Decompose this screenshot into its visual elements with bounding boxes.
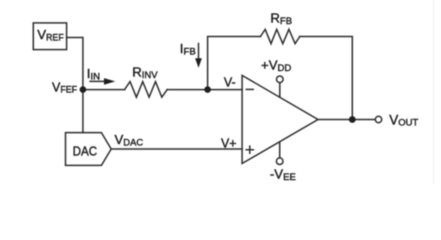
faint page border line (433, 0, 434, 184)
current arrow IIN line (90, 80, 106, 82)
current arrow IFB head (195, 58, 202, 68)
feedback wire: RFB down to output node (300, 37, 353, 120)
junction summing node V- (204, 86, 211, 93)
svg-text:V-: V- (224, 74, 236, 89)
op-amp inverting input minus sign (246, 88, 253, 90)
wire node VFEF to resistor RINV (83, 89, 125, 91)
current arrow IFB line (198, 44, 200, 60)
current arrow IIN head (104, 78, 115, 85)
negative supply pin stub -VEE (279, 142, 281, 158)
wire VREF output to node VFEF (67, 38, 83, 87)
wire DAC output VDAC to op-amp V+ input (111, 148, 242, 150)
voltage source box VREF (33, 23, 66, 50)
DAC block (66, 133, 112, 166)
svg-text:DAC: DAC (73, 143, 98, 158)
output terminal circle VOUT (375, 116, 381, 122)
resistor RFB (260, 29, 299, 43)
resistor RINV (125, 82, 168, 98)
op-amp U1 triangle (242, 75, 318, 163)
junction node VFEF (80, 86, 87, 93)
positive supply terminal circle +VDD (277, 76, 284, 83)
svg-text:V+: V+ (221, 135, 237, 150)
wire node VFEF down to DAC input (82, 90, 84, 133)
wire RINV to summing node to op-amp V- input (167, 89, 242, 91)
positive supply pin stub +VDD (279, 83, 281, 97)
junction output node (349, 116, 356, 123)
wire op-amp output to VOUT terminal (318, 119, 375, 121)
op-amp non-inverting input plus sign (246, 146, 253, 153)
negative supply terminal circle -VEE (276, 158, 283, 165)
feedback wire: summing node up and across to RFB (208, 37, 261, 90)
